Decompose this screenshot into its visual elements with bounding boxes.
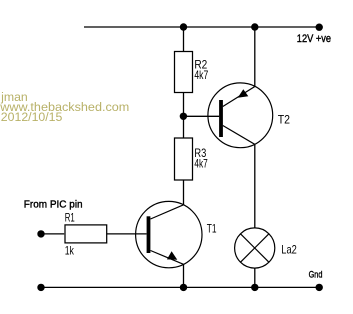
- svg-text:4k7: 4k7: [194, 156, 208, 170]
- svg-text:12V +ve: 12V +ve: [297, 33, 331, 45]
- svg-text:1k: 1k: [65, 244, 75, 258]
- svg-text:T1: T1: [207, 222, 217, 236]
- svg-text:Gnd: Gnd: [309, 270, 323, 281]
- svg-text:From PIC pin: From PIC pin: [24, 199, 83, 211]
- svg-text:2012/10/15: 2012/10/15: [1, 110, 63, 124]
- svg-text:R1: R1: [65, 211, 75, 225]
- svg-text:La2: La2: [281, 243, 297, 257]
- svg-text:T2: T2: [278, 112, 291, 126]
- svg-text:4k7: 4k7: [194, 68, 208, 82]
